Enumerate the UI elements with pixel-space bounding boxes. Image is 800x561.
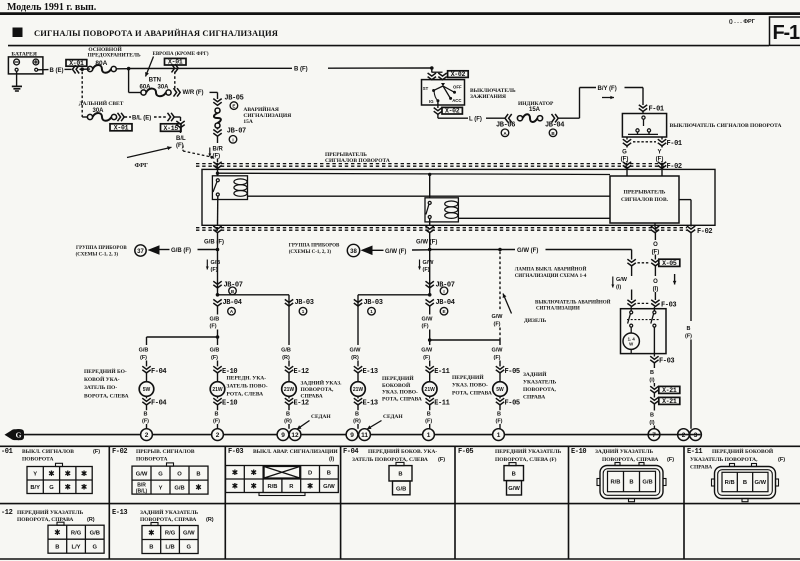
connector F-01 lower (623, 139, 631, 146)
wire battery to X-01 (38, 69, 49, 71)
svg-text:E-13: E-13 (112, 509, 127, 517)
svg-text:ЗАДНИЙ УКАЗАТЕЛЬ: ЗАДНИЙ УКАЗАТЕЛЬ (140, 508, 198, 516)
svg-text:(R): (R) (206, 517, 214, 523)
svg-text:2: 2 (682, 432, 686, 439)
connector F-03 lower (653, 354, 655, 357)
svg-text:ВЫКЛЮЧАТЕЛЬ АВАРИЙНОЙ: ВЫКЛЮЧАТЕЛЬ АВАРИЙНОЙ (535, 299, 611, 305)
svg-text:(I): (I) (616, 284, 621, 290)
connector chevrons on F-02 lower (213, 226, 221, 233)
svg-text:G/B: G/B (210, 347, 220, 353)
wire L(F) (437, 114, 439, 118)
wire relay K2 to ground out (429, 219, 431, 226)
svg-text:9: 9 (350, 432, 354, 439)
svg-text:УКАЗ. ПОВО-: УКАЗ. ПОВО- (382, 390, 418, 396)
svg-text:ПЕРЕДНИЙ БОКОВ. УКА-: ПЕРЕДНИЙ БОКОВ. УКА- (368, 447, 437, 455)
svg-text:(B/L): (B/L) (136, 489, 148, 495)
svg-text:G: G (92, 544, 97, 550)
svg-text:E-13: E-13 (363, 399, 378, 407)
connector X-21 a (650, 386, 658, 393)
title underline (8, 45, 769, 47)
fuse highbeam 30A (87, 114, 92, 119)
wire B/L(E) dashed (125, 116, 132, 118)
svg-text:СИГНАЛОВ ПОВ.: СИГНАЛОВ ПОВ. (621, 197, 669, 203)
down arrow mark (674, 274, 676, 285)
svg-text:(F): (F) (210, 324, 217, 330)
svg-text:G/B (F): G/B (F) (171, 248, 191, 254)
svg-text:ГРУППА ПРИБОРОВ: ГРУППА ПРИБОРОВ (76, 246, 127, 251)
svg-text:B: B (650, 413, 654, 419)
svg-text:G/B: G/B (90, 530, 100, 536)
svg-text:(F): (F) (425, 418, 432, 424)
svg-text:G/B: G/B (174, 485, 184, 491)
svg-text:ВЫКЛ. АВАР. СИГНАЛИЗАЦИИ: ВЫКЛ. АВАР. СИГНАЛИЗАЦИИ (253, 449, 338, 455)
svg-text:G: G (622, 149, 627, 155)
wire down to X-02 (431, 68, 433, 73)
svg-text:E-11: E-11 (434, 368, 449, 376)
connector E-13 upper (354, 366, 362, 373)
node G/B junction (216, 248, 220, 252)
svg-text:(R): (R) (351, 355, 359, 361)
ground at battery (16, 71, 18, 86)
ground bus icon (5, 430, 13, 440)
svg-text:ПЕРЕДНИЙ: ПЕРЕДНИЙ (382, 374, 414, 382)
svg-text:X-05: X-05 (662, 260, 677, 267)
svg-text:ВЫКЛ. СИГНАЛОВ: ВЫКЛ. СИГНАЛОВ (22, 449, 74, 455)
svg-text:15А: 15А (243, 119, 253, 125)
svg-text:F-01: F-01 (649, 106, 664, 114)
hazard indicator lamp 1.4W (623, 333, 639, 349)
connector JB-05 (213, 99, 221, 106)
svg-text:1: 1 (427, 432, 431, 439)
svg-text:F-05: F-05 (458, 448, 473, 456)
svg-text:E-11: E-11 (687, 448, 702, 456)
ground point 9 c3 (277, 429, 289, 441)
svg-text:R/B: R/B (611, 480, 621, 486)
svg-text:(R): (R) (353, 418, 361, 424)
svg-text:B: B (327, 470, 331, 476)
svg-text:E-12: E-12 (294, 399, 309, 407)
wire G/W branch to hazard (430, 249, 515, 251)
lamp F-05 5W (493, 382, 508, 397)
turn signal switch S2 (642, 112, 644, 114)
svg-text:ПОВОРОТА, СПРАВА: ПОВОРОТА, СПРАВА (140, 517, 196, 523)
ground point 3 (690, 429, 702, 441)
ground point 2 right (678, 429, 690, 441)
svg-text:11: 11 (361, 432, 368, 439)
lamp F-04 5W (139, 382, 154, 397)
svg-text:(I): (I) (649, 378, 654, 384)
wire G/W(I) label (612, 277, 614, 288)
svg-text:ПЕРЕДНИЙ БО-: ПЕРЕДНИЙ БО- (84, 367, 127, 375)
svg-text:ПОВОРОТА,: ПОВОРОТА, (523, 387, 556, 393)
svg-text:F-05: F-05 (505, 399, 520, 407)
svg-text:(F): (F) (493, 321, 500, 327)
svg-text:B: B (427, 411, 431, 417)
svg-text:(F): (F) (667, 457, 674, 463)
svg-text:G/B: G/B (642, 480, 652, 486)
connector JB-07 left (213, 281, 221, 288)
ground point 12 (289, 429, 301, 441)
svg-text:I: I (232, 137, 233, 142)
svg-text:X-15: X-15 (164, 125, 179, 132)
svg-text:(F): (F) (778, 457, 785, 463)
svg-text:38: 38 (350, 249, 357, 255)
ground point 9 c4 (346, 429, 358, 441)
connector E-12 upper (285, 366, 293, 373)
svg-text:O: O (653, 279, 658, 285)
node ignition junction (430, 66, 434, 70)
svg-text:ПЕРЕДНИЙ БОКОВОЙ: ПЕРЕДНИЙ БОКОВОЙ (712, 447, 774, 455)
wire junction to BTN fuse (128, 69, 130, 93)
svg-text:ЗАДНИЙ УКАЗ.: ЗАДНИЙ УКАЗ. (301, 379, 343, 387)
svg-text:G/B (F): G/B (F) (204, 240, 224, 246)
node c6 branch (428, 338, 432, 342)
svg-text:R/B: R/B (725, 480, 735, 486)
fuse main 80A (88, 66, 93, 71)
svg-text:B: B (196, 471, 200, 477)
svg-text:ПОВОРОТА: ПОВОРОТА (22, 456, 54, 462)
svg-text:B: B (512, 472, 516, 478)
connector JB-04 ig (552, 114, 559, 122)
svg-text:5W: 5W (143, 387, 151, 393)
connector F-03 upper (627, 300, 635, 307)
svg-text:СПРАВА: СПРАВА (523, 395, 545, 401)
svg-text:(R): (R) (282, 355, 290, 361)
node BTN junction (127, 67, 131, 71)
svg-text:3: 3 (694, 432, 698, 439)
svg-text:E-10: E-10 (571, 448, 586, 456)
svg-text:W/R (F): W/R (F) (183, 90, 204, 96)
connector F-04 upper (142, 366, 150, 373)
svg-text:ПОВОРОТА, СЛЕВА (F): ПОВОРОТА, СЛЕВА (F) (495, 456, 557, 463)
svg-text:X-21: X-21 (662, 398, 677, 405)
svg-text:ЗАТЕЛЬ ПО-: ЗАТЕЛЬ ПО- (84, 385, 117, 391)
svg-text:B/L: B/L (176, 136, 186, 142)
svg-text:() . . . ФРГ: () . . . ФРГ (729, 19, 756, 25)
page ref box F-1 (770, 17, 800, 45)
wire branch to c4 (358, 294, 430, 296)
connector chevrons on F-02 upper (213, 162, 221, 169)
svg-text:СИГНАЛИЗАЦИИ СХЕМА 1-4: СИГНАЛИЗАЦИИ СХЕМА 1-4 (515, 274, 587, 279)
svg-text:JB-04: JB-04 (436, 299, 455, 307)
svg-text:(R): (R) (87, 517, 95, 523)
svg-text:B/Y (F): B/Y (F) (598, 86, 617, 92)
svg-text:JB-07: JB-07 (436, 281, 455, 289)
connector E-10 lower (217, 396, 219, 398)
wires G Y out of switch (626, 137, 628, 140)
svg-text:ЛАМПА ВЫКЛ. АВАРИЙНОЙ: ЛАМПА ВЫКЛ. АВАРИЙНОЙ (515, 266, 587, 272)
header thick rule (0, 12, 800, 15)
svg-text:G/B: G/B (281, 347, 291, 353)
connector JB-03 c3 (285, 299, 293, 306)
svg-text:G/B: G/B (210, 317, 220, 323)
wire B/L(F) corner (175, 116, 181, 118)
svg-text:G/W: G/W (183, 531, 195, 537)
table frame (0, 445, 800, 447)
svg-text:БОКОВОЙ: БОКОВОЙ (382, 381, 411, 389)
ground point 1 c6 (493, 429, 505, 441)
instrument group 37 circle (135, 245, 146, 256)
FRG pointer arrow (127, 147, 172, 157)
svg-text:РОТА, СПРАВА: РОТА, СПРАВА (452, 390, 492, 396)
svg-text:E: E (232, 104, 235, 109)
connector X-01 highbeam (110, 124, 132, 131)
svg-text:(R): (R) (284, 418, 292, 424)
svg-text:21W: 21W (212, 387, 223, 393)
svg-text:G: G (158, 471, 163, 477)
svg-text:ИНДИКАТОР: ИНДИКАТОР (518, 101, 554, 107)
svg-text:(I): (I) (329, 456, 334, 462)
wire B coil output (247, 195, 610, 197)
svg-text:СЕДАН: СЕДАН (383, 414, 403, 420)
connector E-11 lower (429, 396, 431, 398)
wire dashed diagonal to B/R (182, 146, 184, 152)
svg-text:E: E (442, 309, 445, 314)
svg-text:E-11: E-11 (434, 399, 449, 407)
svg-text:R/G: R/G (71, 530, 82, 536)
wire G/W to X-05 (631, 250, 633, 260)
svg-text:B: B (355, 411, 359, 417)
svg-text:G/W: G/W (508, 486, 520, 492)
svg-text:IG: IG (429, 99, 434, 104)
connector JB-07 right (426, 281, 434, 288)
ground bus wire (24, 434, 701, 436)
connector E-10 upper (213, 366, 221, 373)
wire inner box bottom out (654, 223, 656, 227)
svg-text:G/W: G/W (350, 347, 362, 353)
wires G Y into inner box (626, 167, 628, 176)
svg-text:(F): (F) (423, 267, 430, 273)
svg-text:B: B (286, 411, 290, 417)
svg-text:F-04: F-04 (151, 399, 166, 407)
svg-text:УКАЗ. ПОВО-: УКАЗ. ПОВО- (452, 383, 488, 389)
svg-text:-12: -12 (1, 509, 13, 517)
svg-text:G/W: G/W (323, 484, 335, 490)
relay K1 (212, 176, 247, 200)
svg-text:G/W: G/W (616, 277, 628, 283)
svg-text:СПРАВА: СПРАВА (301, 394, 323, 400)
svg-text:F-1: F-1 (773, 22, 800, 44)
svg-text:G: G (186, 545, 191, 551)
svg-text:(СХЕМЫ C-1, 2, 3): (СХЕМЫ C-1, 2, 3) (289, 250, 332, 255)
svg-text:I: I (443, 289, 444, 294)
connector X-02 lower (437, 101, 439, 108)
instrument group 38 circle (347, 244, 359, 256)
svg-text:ПРЕРЫВ. СИГНАЛОВ: ПРЕРЫВ. СИГНАЛОВ (136, 449, 195, 455)
svg-text:(F): (F) (211, 267, 218, 273)
svg-text:9: 9 (281, 432, 285, 439)
svg-text:B: B (149, 545, 153, 551)
svg-text:A: A (230, 309, 234, 314)
svg-text:L (F): L (F) (469, 117, 482, 123)
node JB branch left (216, 293, 220, 297)
svg-text:A: A (503, 131, 507, 136)
wire fuse to junction (116, 68, 128, 70)
svg-text:УКАЗАТЕЛЬ: УКАЗАТЕЛЬ (523, 380, 557, 386)
connector row F-02 upper dashed (196, 163, 664, 165)
svg-text:РОТА, СПРАВА: РОТА, СПРАВА (382, 396, 422, 402)
svg-text:B: B (144, 411, 148, 417)
svg-text:F-02: F-02 (112, 448, 127, 456)
node G/W junction (428, 248, 432, 252)
svg-text:JB-06: JB-06 (496, 121, 515, 129)
svg-text:O: O (653, 242, 658, 248)
svg-text:ЗАЖИГАНИЯ: ЗАЖИГАНИЯ (470, 94, 506, 100)
svg-text:(F): (F) (438, 457, 445, 463)
svg-text:X-01: X-01 (69, 60, 84, 67)
svg-text:15А: 15А (529, 107, 541, 113)
svg-text:(F): (F) (213, 418, 220, 424)
connector X-01 europe (165, 58, 187, 65)
svg-text:СИГНАЛОВ ПОВОРОТА: СИГНАЛОВ ПОВОРОТА (325, 158, 390, 164)
svg-text:G/W: G/W (421, 347, 433, 353)
wire dashed diesel drop (499, 252, 501, 310)
node wireA to relay K2 (428, 173, 431, 176)
svg-text:(I): (I) (649, 420, 654, 426)
fuse BTN (141, 90, 146, 95)
node JB branch right (428, 293, 432, 297)
connector X-02 upper (448, 71, 469, 78)
svg-text:F-01: F-01 (667, 140, 682, 148)
svg-text:(I): (I) (653, 286, 659, 292)
svg-text:(СХЕМЫ C-1, 2, 3): (СХЕМЫ C-1, 2, 3) (76, 252, 119, 257)
svg-text:ВОРОТА, СЛЕВА: ВОРОТА, СЛЕВА (84, 393, 129, 399)
svg-text:JB-03: JB-03 (364, 299, 383, 307)
svg-text:ЕВРОПА (КРОМЕ ФРГ): ЕВРОПА (КРОМЕ ФРГ) (153, 52, 209, 57)
svg-text:JB-04: JB-04 (223, 299, 242, 307)
svg-text:ЗАДНИЙ: ЗАДНИЙ (523, 370, 547, 378)
svg-text:F-04: F-04 (151, 368, 166, 376)
svg-text:R/G: R/G (165, 531, 176, 537)
svg-text:F-03: F-03 (228, 448, 243, 456)
svg-text:(F): (F) (422, 324, 429, 330)
svg-text:ВЫКЛЮЧАТЕЛЬ: ВЫКЛЮЧАТЕЛЬ (470, 88, 516, 94)
svg-text:X-02: X-02 (451, 71, 466, 78)
wire to B/Y (559, 117, 580, 119)
svg-text:21W: 21W (353, 387, 364, 393)
svg-text:(F): (F) (495, 418, 502, 424)
svg-text:B/Y: B/Y (30, 485, 40, 491)
svg-text:КОВОЙ УКА-: КОВОЙ УКА- (84, 375, 120, 383)
fuse hazard 15A (215, 108, 220, 113)
svg-text:5W: 5W (496, 387, 504, 393)
svg-text:G/W (F): G/W (F) (517, 248, 538, 254)
svg-text:ЗАТЕЛЬ ПОВОРОТА, СЛЕВА: ЗАТЕЛЬ ПОВОРОТА, СЛЕВА (352, 457, 428, 463)
node c1 branch (216, 335, 220, 339)
svg-text:W: W (629, 342, 634, 347)
svg-text:E-13: E-13 (363, 368, 378, 376)
wire W/R down (217, 92, 219, 99)
svg-text:ЗАТЕЛЬ ПОВО-: ЗАТЕЛЬ ПОВО- (227, 384, 268, 390)
svg-text:СИГНАЛЫ ПОВОРОТА И АВАРИЙНАЯ С: СИГНАЛЫ ПОВОРОТА И АВАРИЙНАЯ СИГНАЛИЗАЦИ… (34, 28, 278, 38)
svg-text:СИГНАЛИЗАЦИИ: СИГНАЛИЗАЦИИ (536, 306, 580, 311)
lamp E-11 21W (422, 382, 437, 397)
wire B(F) right (690, 232, 692, 322)
connector F-05 upper (496, 366, 504, 373)
instrument group 37 link (159, 249, 170, 251)
svg-text:(F): (F) (423, 355, 430, 361)
connector JB-04 left (213, 299, 221, 306)
connector F-05 lower (499, 396, 501, 398)
connector X-15 (161, 124, 182, 132)
lamp E-10 21W (210, 382, 225, 397)
hazard note arrow (503, 294, 512, 314)
svg-text:ПЕРЕДНИЙ: ПЕРЕДНИЙ (452, 373, 484, 381)
svg-text:G/B: G/B (139, 347, 149, 353)
svg-text:(F): (F) (142, 418, 149, 424)
connector F-04 lower (146, 396, 148, 398)
ground point 1 c5 (423, 429, 435, 441)
wire branch to c3 (218, 294, 290, 296)
connector row F-02 lower dashed (196, 227, 687, 229)
svg-text:1: 1 (497, 432, 501, 439)
svg-text:B: B (398, 472, 402, 478)
ignition switch S1 (422, 80, 465, 105)
svg-text:1: 1 (370, 309, 373, 314)
connector JB-06 (505, 114, 512, 122)
svg-text:R/B: R/B (268, 484, 278, 490)
svg-text:B/L (E): B/L (E) (132, 116, 151, 122)
node diesel branch (498, 248, 502, 252)
svg-text:B (E): B (E) (50, 68, 64, 74)
svg-text:ФРГ: ФРГ (135, 162, 149, 169)
svg-text:2: 2 (216, 432, 220, 439)
svg-text:B: B (551, 131, 555, 136)
svg-text:(F): (F) (493, 355, 500, 361)
wire relay K1 to ground out (217, 196, 219, 225)
connector JB-03 c4 (354, 299, 362, 306)
svg-text:12: 12 (291, 432, 299, 439)
svg-text:E-12: E-12 (294, 368, 309, 376)
lamp E-12 21W (282, 382, 297, 397)
svg-text:B: B (231, 289, 235, 294)
wire A across flasher (218, 173, 611, 174)
title bullet square (13, 28, 22, 37)
Europe note arrow (146, 57, 154, 77)
svg-text:X-01: X-01 (114, 124, 129, 131)
svg-text:B: B (629, 480, 633, 486)
svg-text:B: B (497, 411, 501, 417)
wire dashed drop to highbeam fuse (81, 72, 83, 118)
connector JB-04 right (426, 299, 434, 306)
svg-text:B: B (650, 370, 654, 376)
svg-text:21W: 21W (425, 387, 436, 393)
svg-text:ПОВОРОТА,: ПОВОРОТА, (301, 387, 334, 393)
svg-text:JB-04: JB-04 (545, 121, 564, 129)
svg-text:OFF: OFF (453, 85, 462, 90)
svg-text:ПОВОРОТА, СПРАВА: ПОВОРОТА, СПРАВА (17, 517, 73, 523)
svg-text:G/W: G/W (492, 347, 504, 353)
svg-text:X-21: X-21 (662, 387, 677, 394)
svg-text:ПОВОРОТА: ПОВОРОТА (136, 456, 168, 462)
svg-text:G/W: G/W (422, 317, 434, 323)
svg-text:B: B (687, 326, 691, 332)
svg-text:B (F): B (F) (294, 67, 308, 73)
svg-text:2: 2 (145, 432, 149, 439)
connector JB-07 hazard (217, 128, 219, 130)
svg-text:(F): (F) (685, 334, 692, 340)
svg-text:F-03: F-03 (659, 358, 674, 366)
flasher unit outer box U1 (202, 169, 715, 225)
svg-text:BTN: BTN (149, 78, 161, 84)
svg-text:L/Y: L/Y (72, 544, 81, 550)
svg-text:ACC: ACC (452, 98, 461, 103)
svg-text:АВАРИЙНАЯ: АВАРИЙНАЯ (243, 105, 278, 113)
svg-text:37: 37 (137, 249, 144, 255)
svg-text:(F): (F) (213, 154, 221, 160)
svg-text:1: 1 (302, 309, 305, 314)
connector E-11 upper (426, 366, 434, 373)
